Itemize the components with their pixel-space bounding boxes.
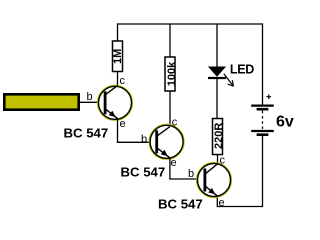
wire probe to Q1 base [80,101,105,103]
wire 1M top drop [117,23,119,41]
transistor Q2 BC547 [149,125,183,159]
svg-text:BC 547: BC 547 [158,196,203,211]
wire LED top drop [216,24,218,68]
label BC 547 Q3 [158,196,203,211]
wire battery negative to bottom rail [217,136,262,207]
battery 6v [251,94,274,134]
label b Q1 [87,91,93,103]
label c Q1 [120,75,126,87]
label BC 547 Q2 [121,165,166,180]
svg-text:LED: LED [230,63,254,77]
svg-text:e: e [120,118,126,130]
svg-text:BC 547: BC 547 [121,165,166,180]
LED [208,67,233,86]
label b Q2 [141,133,147,145]
wire Q2 emitter to Q3 base [170,159,205,180]
svg-text:220R: 220R [213,123,225,149]
svg-text:e: e [171,157,177,169]
svg-text:b: b [141,133,147,145]
svg-text:b: b [188,168,194,180]
svg-text:100k: 100k [166,61,178,86]
label c Q3 [220,155,226,167]
wire Q1 emitter to Q2 base [118,120,158,143]
svg-text:e: e [219,197,225,209]
label LED [230,63,254,77]
transistor Q3 BC547 [197,163,231,197]
label b Q3 [188,168,194,180]
wire top rail [118,23,263,25]
label e Q1 [120,118,126,130]
wire 220R to Q3 collector [217,155,219,165]
svg-text:6v: 6v [276,114,294,131]
transistor Q1 BC547 [98,85,132,120]
probe electrode [4,94,78,109]
wire 1M to Q1 collector [117,72,119,87]
wire LED cathode to 220R [216,79,218,119]
wire battery positive drop [262,23,264,104]
svg-text:c: c [220,155,226,167]
label BC 547 Q1 [64,125,109,140]
resistor 100k [165,57,178,91]
wire 100k to Q2 collector [169,91,171,127]
label e Q3 [219,197,225,209]
svg-text:b: b [87,91,93,103]
svg-text:BC 547: BC 547 [64,125,109,140]
svg-text:c: c [172,116,178,128]
svg-text:1M: 1M [112,49,124,64]
wire 100k top drop [169,24,171,58]
label e Q2 [171,157,177,169]
svg-text:c: c [120,75,126,87]
label c Q2 [172,116,178,128]
resistor 220R [213,119,226,155]
resistor 1M [112,41,124,72]
label 6v [276,114,294,131]
